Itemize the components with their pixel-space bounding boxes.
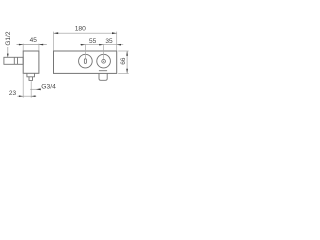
arrow 55 right (tip at mixer ext, pointing right) — [99, 44, 103, 46]
arrow 45 right (outside, tip left) — [39, 44, 43, 46]
mixer knob (right circle) — [97, 54, 111, 68]
dimension 45 extension line right — [38, 44, 40, 51]
pipe collar line 1 — [13, 57, 15, 64]
svg-text:G3/4: G3/4 — [41, 83, 56, 90]
dimension 66 extension line top — [118, 50, 129, 52]
outlet narrow step (side view) — [29, 77, 33, 81]
svg-text:55: 55 — [89, 38, 97, 45]
dimension 180 extension line right — [116, 32, 118, 51]
thermostat knob (left circle) — [79, 54, 93, 68]
arrow 180 left — [54, 32, 59, 34]
svg-text:G1/2: G1/2 — [5, 31, 12, 45]
dimension 23 extension line A (from body back edge) — [22, 74, 24, 98]
arrow 66 bottom — [126, 69, 128, 74]
dimension line 23 — [17, 95, 36, 97]
dimension line 66 — [126, 51, 128, 73]
dimension 180 extension line left — [53, 32, 55, 51]
svg-text:180: 180 — [75, 26, 86, 33]
dimension 45 extension line left — [22, 44, 24, 51]
arrow 55 left (outside, tip right) — [81, 44, 86, 46]
dimension 66 extension line bottom — [118, 72, 129, 74]
arrow 23 left (outside, tip right) — [19, 95, 23, 97]
mixer center dot — [103, 61, 104, 62]
pipe collar line 2 — [17, 57, 19, 64]
G1/2 supply pipe outline — [4, 57, 23, 64]
bottom outlet tab (front view) — [99, 73, 107, 80]
mixer inner circle — [102, 59, 106, 63]
arrow 35 right (outside, tip left) — [117, 44, 121, 46]
svg-text:35: 35 — [105, 38, 113, 45]
extension line at left knob center — [84, 44, 86, 59]
dimension 23 extension line B (outlet centerline) — [30, 81, 32, 98]
svg-text:66: 66 — [120, 57, 127, 65]
dimension line 180 — [54, 32, 117, 34]
arrow 45 left (outside, tip right) — [19, 44, 23, 46]
knob grip slot — [84, 59, 86, 64]
arrow 180 right — [112, 32, 117, 34]
G3/4 leader line — [30, 88, 41, 90]
G1/2 leader line — [7, 47, 9, 57]
bottom outlet top edge (front view) — [99, 70, 107, 72]
G1/2 leader arrow (down) — [7, 54, 9, 58]
svg-text:45: 45 — [30, 37, 38, 44]
arrow 66 top — [126, 51, 128, 56]
faceplate body front rect — [54, 51, 117, 73]
dimension line 45 — [17, 44, 47, 46]
arrow 23 right (outside, tip left) — [31, 95, 35, 97]
valve body side rect — [23, 51, 39, 73]
svg-text:23: 23 — [9, 90, 17, 97]
G3/4 leader arrow (left) — [36, 88, 41, 90]
outlet wide step (side view) — [27, 73, 35, 77]
extension line at mixer center — [103, 44, 105, 59]
dimension 55/35 line — [80, 44, 123, 46]
